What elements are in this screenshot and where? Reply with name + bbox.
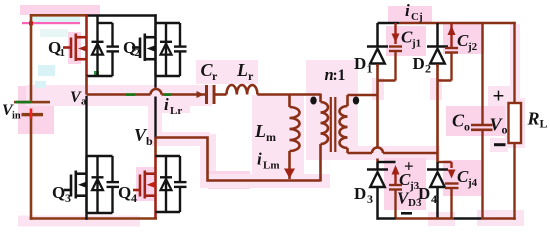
svg-text:i: i — [257, 150, 262, 169]
diode D3 — [367, 162, 388, 220]
pink highlight RL box — [505, 98, 525, 148]
label VD3 plus — [404, 157, 414, 176]
label Cj3 — [399, 170, 420, 192]
pink highlight transformer — [306, 60, 358, 160]
pink highlight Cj2 — [443, 22, 484, 54]
polarity dot secondary — [353, 97, 359, 105]
svg-text:D: D — [354, 184, 366, 203]
wire: bottom rectifier rail black part — [378, 217, 396, 220]
label Cr — [201, 60, 219, 83]
svg-text:3: 3 — [367, 192, 373, 206]
svg-text:D: D — [418, 184, 430, 203]
wire: Q2 cell top bus — [156, 22, 181, 24]
diode D4 — [427, 162, 448, 219]
pink highlight Cj1 — [386, 26, 426, 56]
label Vin — [2, 102, 21, 122]
body diode of Q1 — [92, 16, 104, 77]
pink highlight rectifier legs mid — [372, 78, 442, 100]
label iLm — [257, 150, 280, 172]
wire: bottom rectifier rail black segment — [454, 217, 481, 220]
battery Vin green segment — [16, 101, 31, 104]
svg-text:Q: Q — [52, 183, 65, 202]
battery Vin short plate — [22, 113, 44, 116]
battery Vin long plate — [14, 101, 50, 104]
pink highlight right of Q4 — [152, 132, 250, 189]
wire: D4 cell bus (red) — [438, 161, 452, 163]
capacitor C0 — [471, 22, 493, 219]
body diode of Q2 — [160, 23, 172, 76]
label Lm — [254, 121, 276, 144]
svg-text:o: o — [464, 120, 470, 134]
label iLr — [164, 95, 182, 117]
red artifact tick on battery — [30, 109, 33, 119]
label iCj — [405, 1, 423, 23]
wire: right rail bottom — [513, 143, 515, 220]
wire: left leg D1 to secondary tee (red) — [376, 64, 379, 148]
wire: Q4 cell bottom bus — [156, 211, 181, 213]
svg-text:4: 4 — [131, 191, 137, 205]
current arrow iLm — [284, 169, 295, 179]
wire: left rail upper — [30, 15, 33, 101]
pink highlight Va wire band — [26, 85, 212, 106]
node Va label — [70, 89, 87, 108]
body diode of Q3 — [92, 156, 104, 213]
pink highlight Cj3 area — [384, 158, 426, 210]
svg-text:2: 2 — [425, 62, 431, 76]
svg-text:j4: j4 — [467, 177, 478, 189]
wire: top rail Vin+ to Q1 drain — [30, 14, 87, 17]
wire: secondary top to rectifier left leg — [348, 94, 378, 97]
wire: right leg D2 to secondary bottom (red) — [436, 64, 439, 162]
svg-text:o: o — [502, 123, 508, 137]
wire: Q2 source down to hop — [154, 76, 156, 88]
svg-text:m: m — [266, 130, 276, 144]
svg-text:b: b — [146, 134, 153, 148]
label D4 — [418, 184, 437, 206]
svg-text:r: r — [212, 69, 218, 83]
label Lr — [236, 60, 254, 83]
label D3 — [354, 184, 373, 206]
label Q1 — [48, 38, 65, 59]
transistor Q3 (black mosfet) — [64, 156, 87, 213]
transistor Q1 (red mosfet) — [63, 14, 87, 76]
label Vb — [134, 125, 153, 148]
transformer primary winding — [321, 94, 329, 182]
transistor Q4 (red mosfet) — [133, 156, 156, 219]
wire hop over Q2 source line — [151, 89, 162, 95]
wire: secondary bottom to rectifier right leg with hop — [348, 152, 438, 155]
label RL — [527, 109, 548, 131]
svg-text:D: D — [413, 54, 425, 73]
label VD3 minus — [401, 212, 412, 215]
pink highlight iLr label — [160, 96, 190, 113]
capacitor of Q1 — [98, 23, 120, 76]
wire: Q3 source to bottom rail — [85, 213, 87, 220]
svg-text:in: in — [12, 111, 21, 122]
pink highlight right rail — [510, 24, 520, 100]
wire: Vb to Q4 drain (red) — [154, 138, 157, 157]
cyan band under top rail — [32, 17, 80, 22]
magenta annotation line — [22, 21, 80, 25]
inductor Lr — [227, 85, 258, 95]
svg-text:1: 1 — [60, 47, 66, 59]
pink highlight iCj — [388, 6, 432, 24]
label VD3 — [397, 189, 422, 210]
capacitor of Q4 — [174, 156, 187, 212]
svg-text:D: D — [354, 54, 366, 73]
green artifacts on Va wire — [126, 93, 171, 96]
wire: Vb jog to transformer bottom — [156, 138, 321, 181]
capacitor Cj4 with arrow — [445, 162, 459, 219]
wire: Q3 cell top bus — [87, 155, 113, 157]
wire: rectifier top rail — [378, 22, 516, 25]
wire: left rail lower — [30, 116, 33, 220]
transformer secondary winding — [340, 95, 348, 153]
inductor Lm — [290, 94, 300, 180]
label D2 — [413, 54, 432, 76]
svg-text:1: 1 — [367, 62, 373, 76]
transformer core — [331, 97, 336, 152]
wire: Q1 source to Va to Cr (red) — [87, 76, 207, 95]
wire: Q3 cell bottom bus — [87, 212, 113, 214]
label Cj1 — [401, 28, 421, 50]
wire: bottom rail to RL — [481, 217, 516, 220]
svg-text:+: + — [404, 157, 414, 176]
wire: Q1 cell bottom bus — [87, 75, 113, 77]
label V0 plus — [493, 84, 505, 108]
pink highlight bottom wire middle — [200, 174, 330, 188]
wire hop over left rectifier leg — [372, 148, 383, 154]
pink highlight secondary bottom wire — [340, 146, 440, 160]
transistor Q2 (black mosfet) — [132, 14, 156, 76]
pink highlight bottom right rail — [428, 210, 524, 226]
pink highlight bottom rail band — [18, 216, 140, 227]
label D1 — [354, 54, 373, 76]
resistor RL box — [509, 103, 522, 143]
cyan artifact patches — [35, 65, 55, 88]
pink highlight band above top rail — [20, 5, 100, 15]
wire: bottom rail to Q4 source — [30, 217, 157, 220]
svg-text:4: 4 — [431, 192, 437, 206]
wire: Q4 cell top bus — [156, 155, 181, 157]
svg-text:+: + — [493, 84, 505, 108]
pink highlight Lm column — [252, 95, 304, 186]
svg-text:j1: j1 — [411, 38, 421, 50]
wire: D3 cell bus — [378, 161, 396, 163]
diode D2 — [427, 23, 448, 66]
capacitor Cj1 with arrow — [378, 23, 403, 81]
svg-text:R: R — [527, 109, 540, 129]
pink highlight Q4 mosfet — [136, 167, 155, 201]
label Cj2 — [457, 31, 478, 53]
wire: Q2 source hop to Vb — [154, 97, 156, 138]
label n:1 — [325, 65, 346, 84]
label Q3 — [52, 183, 71, 205]
wire: black top interconnect Q1-Q2 drains — [87, 14, 157, 17]
wire: bottom rectifier rail red part — [396, 217, 455, 220]
wire: right rail top — [513, 22, 515, 103]
svg-text:L: L — [236, 60, 248, 80]
svg-text:Lm: Lm — [263, 160, 280, 172]
polarity dot primary — [310, 97, 316, 105]
svg-text:Lr: Lr — [170, 105, 182, 117]
wire: Q2 cell bottom bus — [156, 75, 181, 77]
pink highlight Vb area — [148, 96, 162, 142]
capacitor Cr plates — [207, 85, 215, 104]
pink highlight Cj4 area — [443, 160, 481, 196]
svg-text:L: L — [540, 117, 548, 131]
wire: Va black continuation down to Q3 — [85, 96, 87, 156]
wire: left leg through hop to D3 bus — [376, 159, 379, 163]
svg-text:j2: j2 — [467, 41, 478, 53]
svg-text:Q: Q — [118, 183, 131, 202]
pink highlight plus minus V0 — [488, 86, 510, 152]
svg-text:2: 2 — [135, 47, 141, 59]
green artifact square — [94, 71, 99, 77]
label Q4 — [118, 183, 137, 205]
svg-text:i: i — [164, 95, 169, 114]
label Q2 — [123, 38, 141, 59]
label C0 — [452, 111, 470, 134]
pink highlight Q1 mosfet — [40, 29, 81, 64]
svg-text::1: :1 — [333, 67, 346, 84]
capacitor of Q3 — [107, 156, 120, 213]
svg-text:i: i — [405, 1, 410, 20]
svg-text:r: r — [248, 69, 254, 83]
label V0 — [490, 115, 508, 137]
capacitor Cj3 with arrow — [389, 165, 402, 219]
pink highlight output band — [446, 106, 512, 136]
label Cj4 — [457, 167, 478, 189]
svg-text:L: L — [254, 121, 266, 141]
wire: Cr to Lr — [214, 93, 227, 96]
pink highlight battery area — [18, 86, 54, 134]
svg-text:Cj: Cj — [411, 11, 423, 23]
pink highlight Cr Lr labels — [196, 60, 258, 84]
capacitor Cj2 with arrow — [438, 23, 459, 81]
capacitor of Q2 — [174, 23, 187, 76]
label V0 minus — [494, 143, 506, 146]
svg-text:3: 3 — [65, 191, 71, 205]
body diode of Q4 — [160, 156, 172, 212]
diode D1 — [367, 23, 388, 66]
wire: Lr to transformer primary top — [257, 93, 320, 96]
current arrow iLr — [197, 91, 205, 98]
